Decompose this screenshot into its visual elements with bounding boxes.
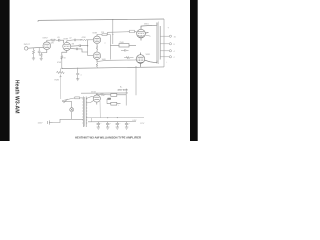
svg-text:115V: 115V (38, 123, 43, 125)
wire: B+ from rectifier (81, 93, 128, 96)
svg-text:.05: .05 (57, 37, 60, 39)
ground (97, 127, 100, 129)
right black margin bar (190, 0, 198, 141)
switch SW1 (64, 99, 68, 103)
resistor R10 primary feed (62, 97, 83, 101)
left black margin bar (0, 0, 10, 141)
capacitor C8 electrolytic (106, 122, 109, 127)
svg-text:6SN7: 6SN7 (93, 32, 98, 34)
tube V2b 6SN7 driver (93, 50, 100, 61)
resistor R9 grid stopper (130, 30, 135, 33)
title text Heath W3-AM (rotated) (14, 80, 20, 114)
terminal 8 ohm (169, 43, 171, 45)
tube V3 5881 upper output (137, 25, 152, 40)
resistor R8 filter (107, 102, 121, 105)
transformer T2 winding bumps (82, 99, 87, 123)
wire: filter vertical (107, 89, 126, 106)
svg-text:.1: .1 (80, 74, 82, 76)
svg-text:250K: 250K (120, 42, 125, 44)
plug P1 (48, 120, 53, 124)
tube V5 5V4G rectifier (93, 94, 100, 105)
wire: upper grid line to output tube (108, 32, 138, 35)
transformer T1 output primary (156, 23, 158, 64)
capacitor C3 coupling upper (71, 45, 88, 48)
wire: transformer lead stub (91, 118, 93, 122)
wire: rail left end tick (37, 20, 39, 22)
svg-text:6SN7: 6SN7 (43, 38, 49, 40)
resistor R3 plate load (47, 39, 59, 41)
wire: screen supply vertical (112, 20, 114, 44)
wire: heater rail (87, 116, 145, 119)
svg-text:HUM: HUM (55, 80, 60, 82)
node: screen junction (112, 34, 113, 35)
wire: HV secondary to rectifier (86, 97, 93, 104)
wire: V1b cathode down to mid rail (61, 52, 63, 69)
capacitor C5 (121, 49, 129, 51)
wire: driver bias vertical (109, 37, 111, 60)
capacitor C2 coupling (59, 39, 64, 43)
capacitor C10 electrolytic (125, 122, 128, 127)
capacitor C6 (76, 68, 79, 79)
pilot lamp PL1 (70, 108, 74, 112)
resistor R5 bias box (110, 44, 136, 47)
wire: top B+ rail (38, 19, 164, 20)
resistor R12 grid (81, 39, 89, 41)
ground (40, 58, 43, 60)
wire: B+ drop to power supply (135, 67, 137, 95)
terminal common (169, 56, 171, 58)
terminal 16 ohm (169, 35, 171, 37)
capacitor C1 (38, 48, 41, 56)
wire: lower grid line to output tube (97, 60, 137, 62)
node mid rail junction (77, 68, 78, 69)
ground (76, 79, 79, 81)
wire: AC line (53, 119, 84, 122)
potentiometer R7 hum balance (57, 68, 65, 77)
tube V1b 6SN7 (62, 41, 71, 53)
svg-text:.1: .1 (104, 43, 106, 45)
tube V1a 6SN7 (43, 40, 51, 52)
transformer T2 core (84, 97, 86, 127)
tube V4 5881 lower output (136, 53, 157, 67)
svg-text:Heath W3-AM: Heath W3-AM (14, 80, 20, 114)
capacitor C4 coupling lower (71, 48, 88, 52)
wire: secondary taps to terminals (161, 36, 170, 57)
wire: rectifier filament drop (99, 101, 101, 118)
node junctions (61, 19, 136, 118)
resistor R2 cathode (40, 53, 47, 59)
resistor R6 (124, 57, 134, 59)
wire: V3 plate to transformer top (152, 23, 157, 26)
transformer T1 secondary (159, 26, 161, 60)
ground (125, 127, 128, 129)
node grid junction (87, 45, 88, 46)
svg-text:425V 400V: 425V 400V (118, 88, 129, 91)
wire: lamp branch (62, 102, 72, 120)
ground (106, 127, 109, 129)
choke L1 (108, 94, 127, 101)
resistor R1 grid (33, 48, 35, 58)
svg-text:.02: .02 (69, 38, 72, 40)
wire: B+ cap bus (88, 121, 136, 123)
wire: long middle rail (feedback/B+ return) (62, 67, 164, 69)
input jack J1 (25, 47, 44, 50)
svg-text:HEATHKIT W3-AM WILLIAMSON TYPE: HEATHKIT W3-AM WILLIAMSON TYPE AMPLIFIER (75, 136, 142, 140)
resistor R4 plate V2a (97, 34, 110, 37)
wire: right side vertical from rail to mid rail (163, 19, 165, 67)
capacitor C7 electrolytic (97, 122, 100, 127)
resistor R11 cathode bias (61, 56, 63, 60)
wire: pot to switch (60, 77, 62, 99)
svg-text:100K: 100K (102, 59, 107, 61)
svg-text:INPUT: INPUT (24, 44, 31, 46)
wire: V2 grid tie vertical (88, 40, 94, 56)
transformer T2 power (83, 97, 86, 128)
wire: screen taps (145, 35, 150, 36)
transformer T1 core (158, 22, 160, 65)
resistor R14 tail (96, 59, 98, 68)
ground (116, 127, 119, 129)
ground (32, 58, 35, 60)
bottom caption text (75, 136, 142, 140)
terminal 4 ohm (169, 50, 171, 52)
tube V2a 6SN7 driver (93, 34, 100, 45)
svg-text:117V: 117V (140, 123, 145, 125)
node junction (80, 39, 81, 40)
resistor R13 cathode V2 (96, 46, 98, 51)
capacitor C11 upper branch (67, 39, 81, 41)
capacitor C9 electrolytic (116, 122, 119, 127)
